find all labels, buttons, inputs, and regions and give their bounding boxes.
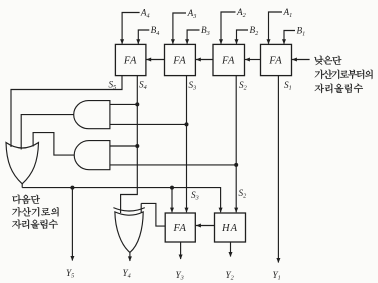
wire Y5 down	[71, 188, 73, 261]
arrow into HA top (K)	[219, 208, 223, 213]
wire OR output stub	[21, 184, 23, 188]
text: carry from lower-stage adder (line3)	[315, 84, 363, 94]
arrowhead at bottom FA right edge	[196, 224, 201, 228]
arrowhead Y4	[128, 256, 132, 261]
arrow into FA top (A3)	[171, 39, 175, 44]
wire K carry-out line to HA	[22, 188, 220, 213]
text: carry to next-stage adder (line2)	[12, 207, 58, 216]
wire S4 down to XOR input	[121, 76, 138, 213]
arrow into FA top (B3)	[185, 39, 189, 44]
svg-text:FA: FA	[221, 56, 235, 67]
node K-Y5 junction	[70, 186, 74, 190]
wire G2 input from S4	[110, 145, 137, 147]
arrowhead Y2	[229, 252, 233, 257]
arrowhead at U4 right edge	[146, 58, 151, 62]
arrowhead at U1 right edge (carry in)	[292, 58, 297, 62]
full adder U4 (bits A4,B4)	[115, 44, 145, 75]
wire input B3	[187, 30, 199, 44]
node S3-AND1 junction	[185, 122, 189, 126]
wire Y3 down	[180, 242, 182, 259]
wire carry U1->U2	[245, 59, 261, 61]
wire bottom FA carry-out to XOR	[141, 203, 165, 226]
node S4-AND1 junction	[135, 102, 139, 106]
wire G2 input from S2	[110, 164, 236, 166]
wire input A2	[221, 12, 236, 44]
arrow into FA top (B2)	[235, 39, 239, 44]
node S4-AND2 junction	[135, 144, 139, 148]
node K-FA junction	[170, 186, 174, 190]
full adder U1 (bits A1,B1)	[261, 44, 292, 75]
text: carry from lower-stage adder (line2)	[315, 70, 373, 79]
arrowhead Y5	[70, 256, 74, 261]
OR gate G3 (3 inputs), points down	[6, 143, 39, 184]
wire carry HA->FA	[196, 225, 215, 227]
arrow into HA top (S2)	[234, 208, 238, 213]
XOR gate G4 (Y4 = S4 xor carry), points down	[115, 212, 143, 253]
wire S2 down to HA	[235, 76, 237, 213]
AND gate G2 (inputs S4,S2), points left	[74, 141, 110, 170]
wire Y4 down	[129, 252, 131, 261]
arrow into FA top (A2)	[219, 39, 223, 44]
wire input A4	[122, 13, 140, 44]
arrowhead Y1	[276, 258, 280, 263]
wire input B4	[138, 30, 149, 44]
wire input B1	[284, 31, 295, 44]
full adder U5 (correction)	[165, 213, 195, 242]
wire carry U2->U3	[196, 59, 213, 61]
XOR gate G4 second input arc	[113, 208, 144, 211]
text: carry to next-stage adder (line1)	[12, 195, 40, 204]
half adder U6 (correction)	[215, 213, 246, 242]
arrow into FA top (B4)	[136, 39, 140, 44]
wire input A3	[173, 13, 186, 44]
arrow into bottom FA top (K)	[170, 208, 174, 213]
arrow into bottom FA top (S3)	[185, 208, 189, 213]
svg-text:FA: FA	[268, 56, 282, 67]
text: carry to next-stage adder (line3)	[12, 220, 58, 230]
wire XOR right input stub	[140, 203, 142, 212]
svg-text:HA: HA	[221, 223, 238, 234]
arrow into FA top (A1)	[267, 39, 271, 44]
wire carry U3->U4	[146, 59, 164, 61]
wire G1 input from S3	[110, 123, 187, 125]
wire S1 down to Y1	[277, 76, 279, 263]
text: carry from lower-stage adder (line1)	[314, 56, 341, 65]
full adder U2 (bits A2,B2)	[213, 44, 245, 75]
wire carry-in from lower stage	[292, 59, 310, 61]
wire S5 carry to OR gate input	[11, 76, 122, 147]
wire G1 input from S4	[110, 103, 137, 105]
arrowhead at U2 right edge	[245, 58, 250, 62]
wire Y2 down	[230, 242, 232, 257]
wire S3 down to bottom FA	[186, 76, 188, 213]
arrowhead Y3	[179, 255, 183, 260]
wire G2 output to OR gate	[33, 133, 74, 156]
svg-text:FA: FA	[173, 223, 187, 234]
svg-text:FA: FA	[172, 56, 186, 67]
wire input A1	[269, 12, 283, 44]
arrow into FA top (B1)	[282, 39, 286, 44]
node S2-AND2 junction	[234, 163, 238, 167]
arrowhead at U3 right edge	[196, 58, 201, 62]
full adder U3 (bits A3,B3)	[165, 44, 196, 75]
svg-text:FA: FA	[123, 56, 137, 67]
wire G1 output to OR gate	[21, 115, 73, 150]
wire K to bottom FA input	[171, 188, 173, 213]
arrow into FA top (A4)	[120, 39, 124, 44]
AND gate G1 (inputs S4,S3), points left	[74, 101, 110, 129]
wire input B2	[237, 30, 249, 44]
